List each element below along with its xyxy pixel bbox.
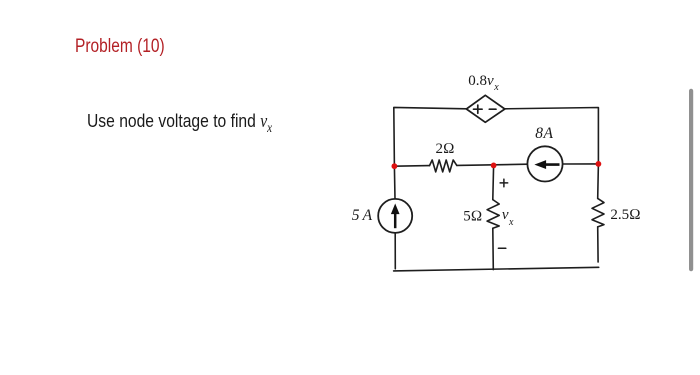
arrow of 5A source (points up) — [392, 205, 399, 228]
wire: 5A source bottom to bottom-left corner — [394, 233, 396, 269]
title: Problem (10) — [75, 36, 165, 58]
resistor R2 5ohm (vertical zigzag) — [487, 200, 499, 229]
arrow of 8A source (points left) — [536, 161, 560, 168]
svg-text:8A: 8A — [535, 125, 553, 142]
wire: 2.5-ohm resistor to bottom right end — [597, 227, 599, 262]
wire: bottom wire — [394, 267, 599, 271]
wire: top-left corner (left vertical top + top wire to diamond) — [394, 107, 467, 166]
svg-text:x: x — [493, 82, 499, 93]
svg-text:2Ω: 2Ω — [436, 141, 455, 157]
polarity plus of vx — [500, 179, 508, 187]
svg-text:x: x — [508, 217, 514, 228]
node C (right red junction) — [596, 161, 602, 167]
plus sign inside diamond — [474, 105, 483, 113]
svg-text:v: v — [502, 207, 509, 223]
svg-text:0.8v: 0.8v — [468, 73, 494, 89]
wire: left vertical from node down to 5A source — [393, 166, 396, 199]
wire: 5-ohm resistor to bottom wire — [492, 228, 495, 269]
wire: 2-ohm to 8A source left edge (through middle node) — [457, 164, 528, 165]
wire: 8A source right edge to right node — [563, 163, 599, 165]
svg-text:5 A: 5 A — [352, 207, 373, 224]
node A (left red junction) — [392, 163, 398, 169]
wire: right node down to 2.5-ohm resistor — [597, 164, 600, 199]
wire: middle node down to 5-ohm resistor — [492, 165, 495, 199]
current source I2 8A (circle) — [527, 146, 562, 181]
minus sign inside diamond — [489, 108, 496, 110]
svg-text:5Ω: 5Ω — [463, 208, 482, 224]
current source I1 5A (circle) — [378, 199, 412, 233]
svg-text:2.5Ω: 2.5Ω — [610, 207, 640, 223]
resistor R1 2ohm (horizontal zigzag) — [430, 160, 457, 172]
dependent source U1 0.8vx (diamond) — [466, 95, 504, 122]
scrollbar at right edge — [689, 89, 693, 271]
wire: top right from diamond to top-right corner down to right node — [505, 108, 599, 164]
prompt text — [87, 111, 272, 136]
resistor R3 2.5ohm (vertical zigzag) — [592, 198, 604, 227]
node B (middle red junction) — [491, 163, 497, 169]
polarity minus of vx — [498, 247, 505, 249]
wire: left node to 2-ohm resistor — [394, 165, 429, 168]
